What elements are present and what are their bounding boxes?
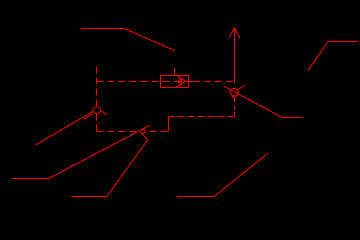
junction bubble J3	[141, 129, 145, 133]
wire rubber-band steep diagonal from J3	[107, 140, 148, 196]
selected net horizontal below, right of J3 (dashed)	[150, 131, 169, 133]
wire horizontal net D bottom-center	[177, 196, 214, 198]
selected net vertical below J1 (dashed)	[96, 114, 98, 132]
J2 upper-right tick	[237, 85, 245, 90]
wire rubber-band diagonal from net C	[308, 42, 328, 71]
selected net horizontal middle (dashed)	[169, 116, 235, 118]
pin 1 stub on top of U1	[174, 68, 176, 76]
selected net horizontal right of U1 (dashed)	[193, 81, 233, 83]
wire rubber-band diagonal from net A to junction J3	[49, 125, 151, 178]
selected net vertical above J1 (dashed)	[96, 67, 98, 107]
J1 left tick	[85, 114, 93, 119]
junction bubble J1	[93, 107, 101, 114]
wire horizontal net F right	[281, 117, 302, 119]
wire rubber-band diagonal through J2 to net F	[224, 86, 281, 117]
power arrow symbol stem	[234, 28, 236, 83]
selected net horizontal through U1 (dashed, left part)	[97, 81, 189, 83]
bubble inside U1	[178, 80, 181, 83]
wire rubber-band diagonal from net B toward U1	[124, 29, 175, 51]
power arrow head	[229, 28, 240, 38]
wire horizontal net B top-left	[81, 28, 124, 30]
chevron marker inside U1	[177, 76, 187, 87]
selected net horizontal below, left of J3 (dashed)	[97, 131, 136, 133]
wire rubber-band diagonal into J1	[36, 112, 94, 146]
junction bubble J2	[230, 88, 238, 96]
wire rubber-band diagonal from net D	[214, 154, 267, 197]
component U1 body box	[161, 76, 189, 88]
J2 lower V tick	[232, 96, 236, 99]
J1 right tick	[101, 110, 108, 115]
selected net vertical riser (solid short)	[168, 117, 170, 132]
wire horizontal net A lower-left	[12, 178, 49, 180]
pin 2 stub right of U1	[189, 81, 194, 83]
J3 lower tick	[141, 134, 147, 140]
wire horizontal net E bottom-left	[71, 196, 107, 198]
wire horizontal net C top-right	[328, 41, 358, 43]
selected net vertical below J2 (dashed)	[234, 96, 236, 117]
